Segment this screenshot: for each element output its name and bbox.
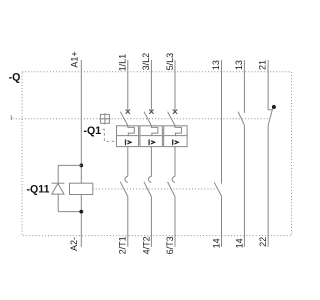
wire pole 2 upper (3/L2) — [150, 60, 152, 112]
svg-text:-Q1: -Q1 — [84, 125, 102, 137]
diode V1 triangle (surge suppressor across coil) — [52, 184, 64, 195]
thermal overload release pole 3 (hook) — [175, 126, 182, 136]
junction dot lower (suppressor branch to A2 line) — [79, 210, 83, 214]
contactor fixed contact arc pole 1 — [125, 177, 128, 183]
svg-text:1/L1: 1/L1 — [117, 54, 127, 72]
mechanical linkage of coil -Q11 to main contacts (dotted) — [93, 188, 216, 190]
release block cell pole 1 (box) — [117, 126, 139, 147]
wire A2- (vertical control line, lower) — [80, 195, 82, 247]
wire aux 1 upper (13) — [221, 60, 223, 184]
breaker fixed contact X pole 3 — [173, 110, 177, 114]
contactor contact blade pole 3 — [168, 182, 176, 197]
contactor fixed contact arc pole 2 — [149, 177, 152, 183]
thermal overload release pole 2 (hook) — [151, 126, 158, 136]
magnetic overcurrent release pole 1 (I> symbol) — [126, 139, 132, 145]
svg-text:5/L3: 5/L3 — [165, 53, 175, 71]
contactor aux NO contact blade (13-14) — [214, 182, 221, 196]
wire aux 2 upper (13) — [243, 60, 245, 113]
contactor contact blade pole 2 — [144, 182, 152, 197]
breaker fixed contact X pole 2 — [149, 110, 153, 114]
wire pole 1 middle (box to contactor contact) — [127, 147, 129, 177]
svg-text:6/T3: 6/T3 — [165, 236, 175, 254]
junction dot upper (suppressor branch to A1 line) — [79, 164, 83, 168]
breaker contact blade pole 2 — [144, 112, 151, 126]
manual actuator tick (left end of breaker linkage) — [10, 115, 12, 120]
svg-text:-Q11: -Q11 — [27, 183, 50, 195]
svg-text:21: 21 — [257, 60, 267, 70]
svg-text:-Q: -Q — [9, 72, 21, 84]
breaker aux NC contact blade (21-22) — [268, 109, 273, 126]
wire pole 3 lower (6/T3) — [174, 197, 176, 247]
wire branch lower horizontal — [58, 211, 81, 213]
svg-text:A2-: A2- — [69, 237, 79, 251]
contactor contact blade pole 1 — [120, 182, 128, 197]
magnetic overcurrent release pole 2 (I> symbol) — [149, 139, 155, 145]
breaker fixed contact X pole 1 — [126, 110, 130, 114]
wire pole 3 upper (5/L3) — [174, 60, 176, 112]
wire A1+ (vertical control line, upper) — [80, 60, 82, 183]
svg-text:14: 14 — [234, 238, 244, 248]
svg-text:13: 13 — [211, 60, 221, 70]
wire pole 1 upper (1/L1) — [127, 60, 129, 112]
breaker contact blade pole 1 — [120, 112, 127, 126]
svg-text:2/T1: 2/T1 — [117, 236, 127, 254]
manual operator symbol (square with cross) — [99, 113, 110, 124]
wire aux 3 upper (21) — [267, 60, 269, 110]
breaker aux NC indicator dot — [272, 105, 276, 109]
wire branch upper horizontal — [58, 164, 81, 166]
release block cell pole 3 (box) — [164, 126, 187, 147]
wire aux 1 lower (14) — [221, 196, 223, 247]
wire aux 2 lower (14) — [243, 125, 245, 247]
diode V1 cathode bar — [51, 182, 64, 184]
contactor fixed contact arc pole 3 — [172, 177, 175, 183]
breaker contact blade pole 3 — [168, 112, 175, 126]
svg-text:14: 14 — [211, 238, 221, 248]
breaker aux NC fixed contact stub — [268, 109, 272, 111]
enclosure border of combination -Q (dotted rectangle) — [22, 72, 292, 236]
wire pole 1 lower (2/T1) — [127, 197, 129, 247]
svg-text:22: 22 — [258, 237, 268, 247]
coil -Q11 (contactor coil rectangle) — [70, 183, 93, 194]
svg-text:A1+: A1+ — [69, 51, 79, 67]
wire pole 2 middle — [150, 147, 152, 177]
wire aux 3 lower (22) — [267, 126, 269, 247]
wire pole 2 lower (4/T2) — [150, 197, 152, 247]
mechanical linkage of breaker -Q1 (dotted) — [13, 118, 270, 120]
svg-text:4/T2: 4/T2 — [141, 236, 151, 254]
wire pole 3 middle — [174, 147, 176, 177]
svg-text:3/L2: 3/L2 — [141, 53, 151, 71]
breaker aux NO contact blade (13-14) — [238, 112, 244, 126]
dashed bracket from -Q1 label to breaker body — [103, 129, 117, 141]
thermal overload release pole 1 (hook) — [128, 126, 135, 136]
wire branch left vertical upper — [57, 165, 59, 183]
magnetic overcurrent release pole 3 (I> symbol) — [173, 139, 179, 145]
wire branch left vertical lower — [57, 194, 59, 212]
svg-text:13: 13 — [234, 60, 244, 70]
release block cell pole 2 (box) — [140, 126, 163, 147]
